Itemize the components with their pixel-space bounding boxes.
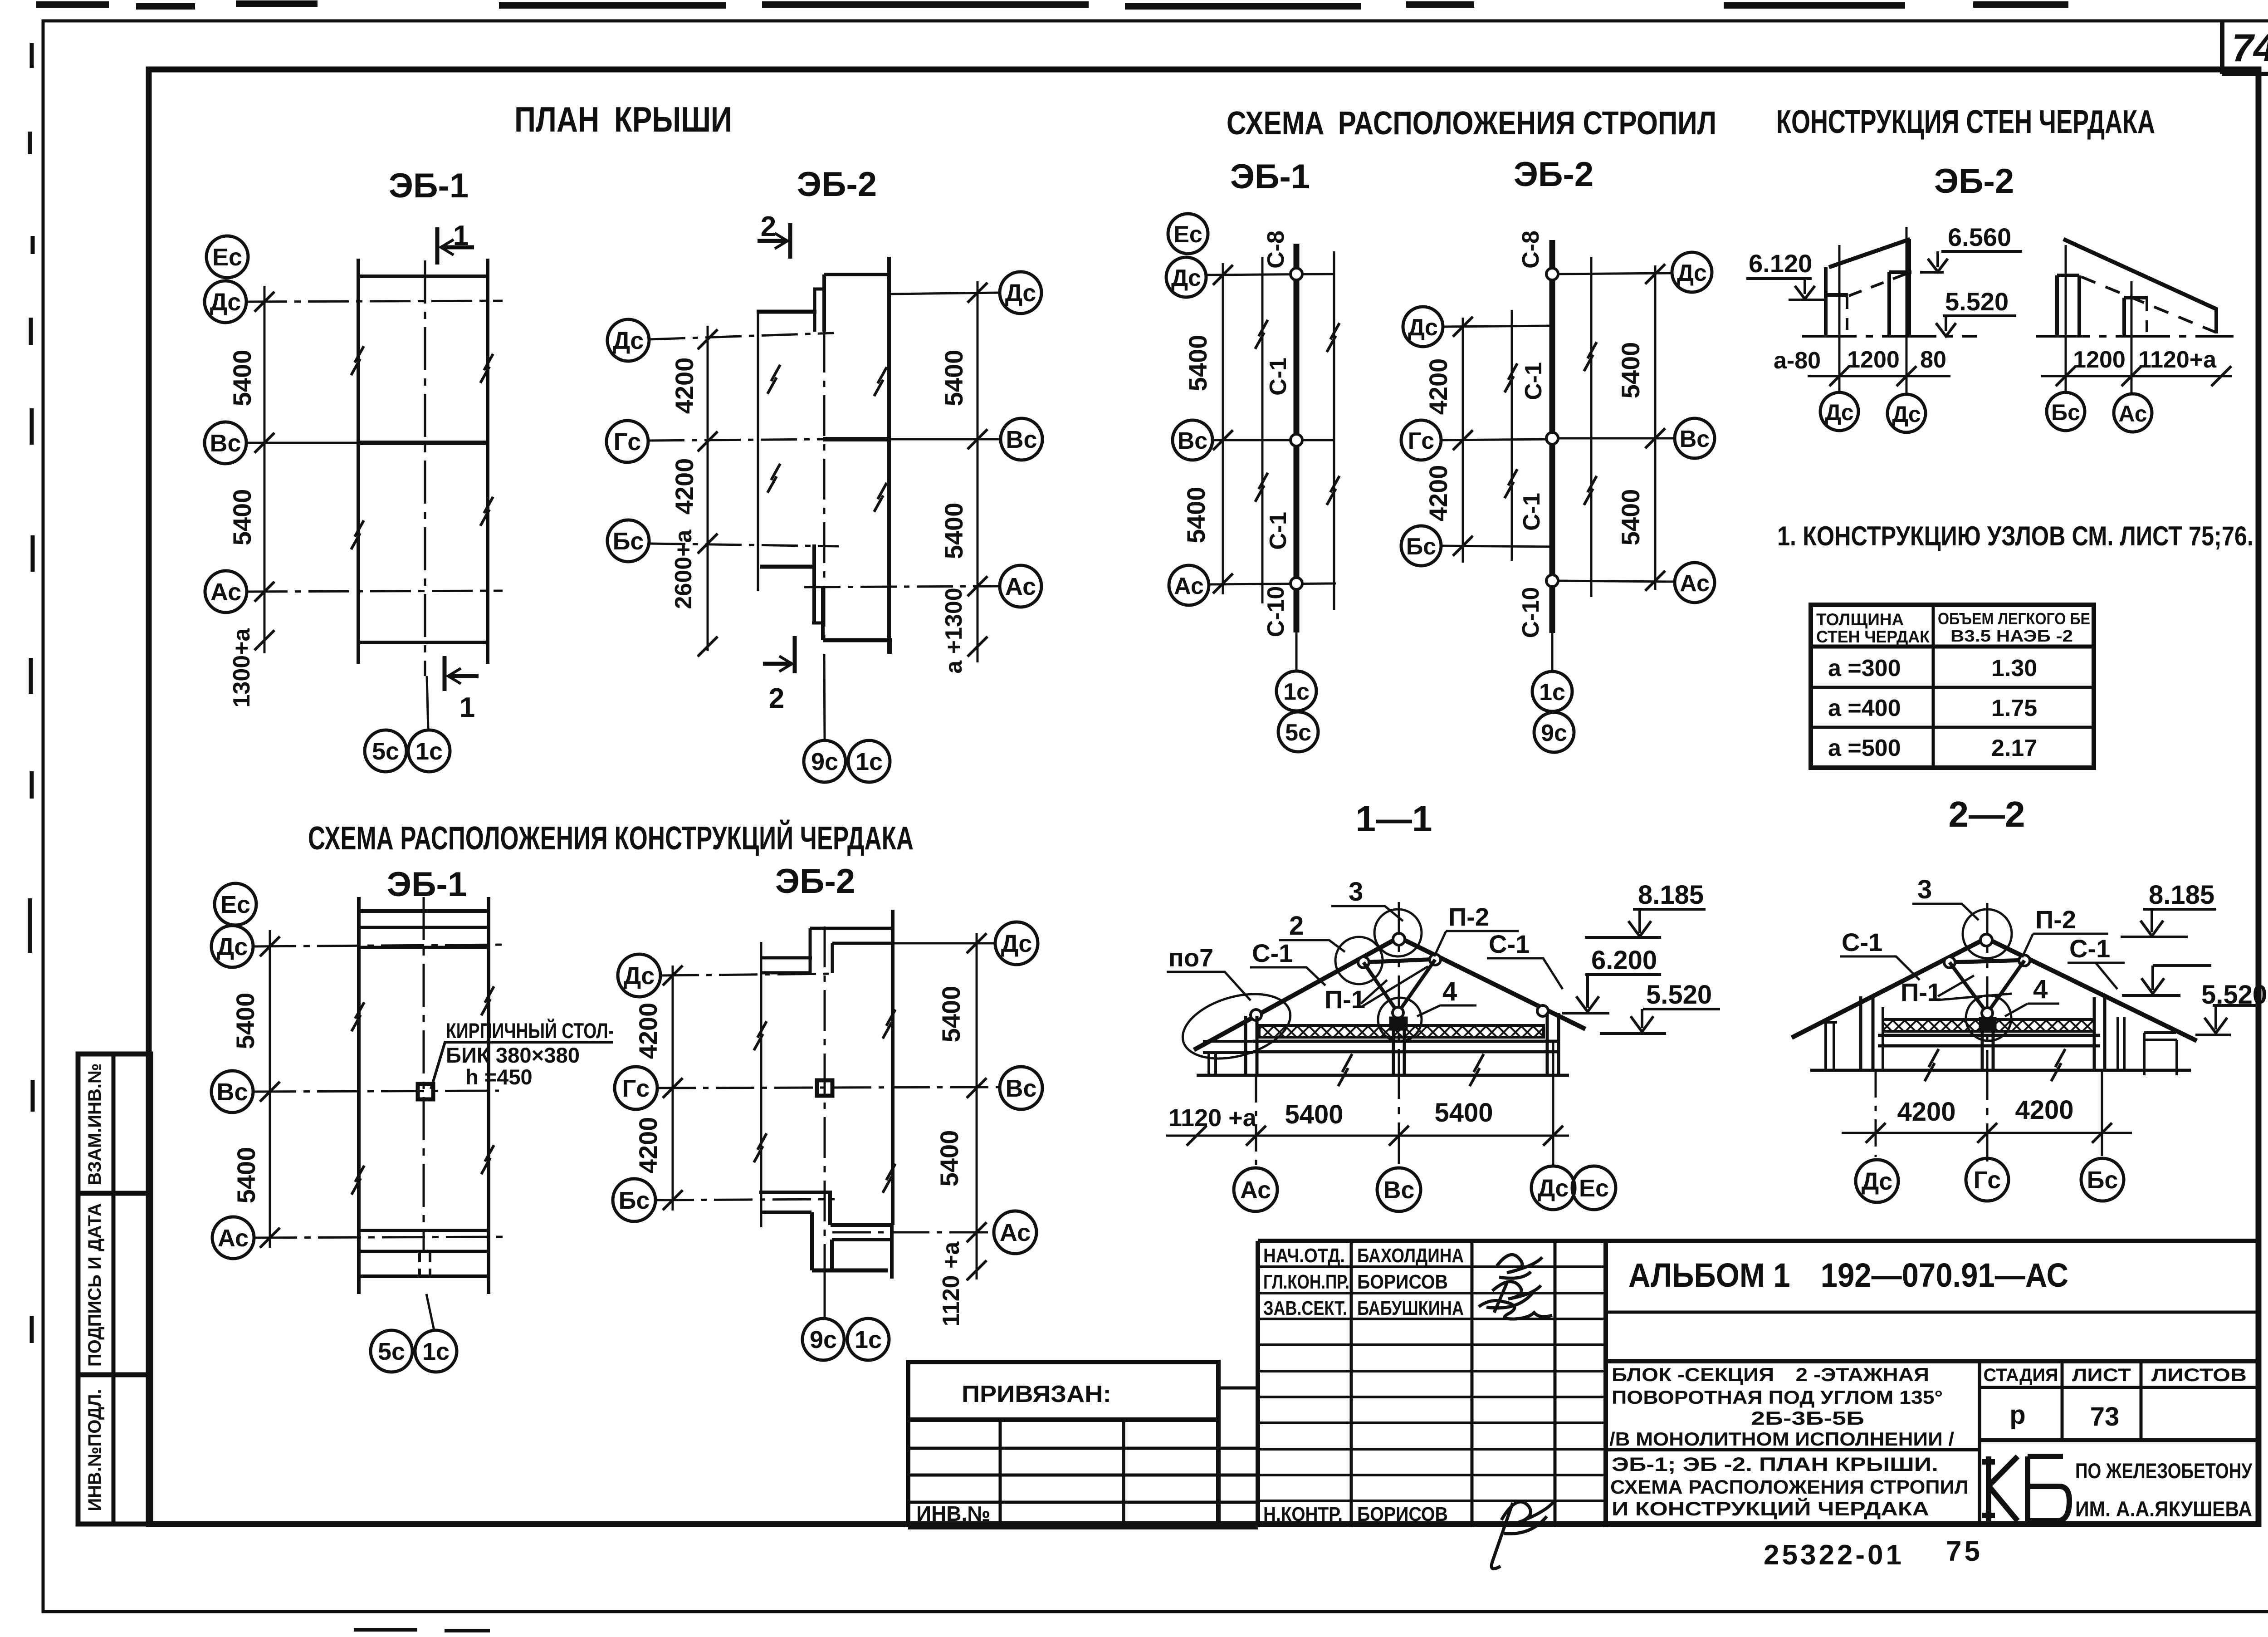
collar beam П-2: [1362, 959, 1437, 962]
svg-text:Вс: Вс: [1006, 426, 1037, 453]
section mark 1 top: [437, 227, 474, 265]
dim line: [1166, 1135, 1569, 1137]
svg-text:h =450: h =450: [465, 1065, 533, 1089]
axis circle 9с: [804, 740, 846, 782]
svg-text:ИНВ.№: ИНВ.№: [916, 1502, 991, 1525]
wall edge left upper: [822, 274, 826, 332]
axis circle 9с: [1534, 712, 1574, 752]
dim tick Дс: [968, 283, 987, 303]
svg-text:КИРПИЧНЫЙ СТОЛ-: КИРПИЧНЫЙ СТОЛ-: [446, 1019, 614, 1043]
dim tick Ас: [260, 1228, 280, 1248]
rafter С-1 left: [1792, 938, 1986, 1038]
break mark on base: [2051, 1049, 2065, 1081]
svg-text:Вс: Вс: [1005, 1075, 1036, 1102]
svg-text:Вс: Вс: [1680, 426, 1710, 452]
ridge node: [1393, 933, 1405, 945]
блок-секция cell top: [1606, 1359, 2258, 1363]
svg-text:Бс: Бс: [1406, 534, 1436, 560]
dim tick Дс: [254, 292, 274, 312]
right wall column: [1547, 1013, 1559, 1075]
svg-text:1120 +а: 1120 +а: [938, 1241, 964, 1327]
left overhang wall: [1209, 1053, 1216, 1075]
break mark: [883, 1164, 895, 1193]
axis Дс extension: [1552, 1042, 1554, 1165]
svg-text:5400: 5400: [1616, 489, 1645, 546]
break mark: [1327, 323, 1339, 352]
strut П-1 right: [1987, 961, 2024, 1013]
svg-text:1120+а: 1120+а: [2138, 347, 2217, 373]
break mark: [481, 986, 494, 1015]
svg-text:6.120: 6.120: [1749, 249, 1812, 278]
axis circle Дс: [1166, 257, 1206, 297]
signature scribble 3: [1479, 1301, 1552, 1319]
svg-text:1с: 1с: [1539, 679, 1565, 706]
svg-text:4200: 4200: [1424, 465, 1452, 522]
svg-text:8.185: 8.185: [2149, 880, 2214, 910]
axis line Дс: [253, 945, 503, 946]
svg-text:Гс: Гс: [1974, 1166, 2001, 1194]
slant roof top: [2063, 239, 2217, 309]
right dim line: [977, 281, 979, 662]
axis line Гс-Вс: [657, 1087, 1000, 1088]
svg-text:ЭБ-1; ЭБ -2. ПЛАН КРЫШИ.: ЭБ-1; ЭБ -2. ПЛАН КРЫШИ.: [1612, 1454, 1938, 1475]
break mark on base: [1338, 1054, 1352, 1086]
wall edge left: [357, 897, 361, 1294]
king post 4: [1391, 1018, 1406, 1029]
strut П-1 left: [1364, 962, 1398, 1013]
svg-text:БИК 380×380: БИК 380×380: [446, 1043, 580, 1067]
axis circle 5с: [365, 730, 406, 772]
svg-text:1: 1: [453, 220, 469, 251]
collar node left: [1358, 957, 1369, 968]
left overhang lines: [1203, 1041, 1253, 1053]
svg-text:Ес: Ес: [1173, 221, 1202, 248]
node Вс: [1546, 432, 1558, 444]
svg-text:9с: 9с: [811, 748, 838, 775]
left dim line: [672, 966, 674, 1211]
svg-text:4200: 4200: [634, 1003, 662, 1059]
dim tick Гс: [698, 431, 718, 451]
svg-text:НАЧ.ОТД.: НАЧ.ОТД.: [1263, 1245, 1345, 1267]
axis line Вс thick ridge: [246, 442, 357, 444]
break mark on base: [1925, 1049, 1939, 1081]
collar node right: [2019, 955, 2030, 966]
axis Дс extension: [1875, 1070, 1877, 1157]
svg-text:Ес: Ес: [220, 891, 250, 918]
svg-text:С-8: С-8: [1263, 230, 1289, 269]
dashed slant soffit: [1849, 273, 1908, 296]
axis line Дс right: [891, 293, 1000, 294]
svg-text:Дс: Дс: [1005, 279, 1036, 307]
middle wall outline: [2124, 298, 2148, 336]
axis circle Ас: [2114, 394, 2152, 432]
wall edge right: [487, 897, 490, 1294]
right dim line: [1654, 265, 1657, 590]
sheet number box 74: [2222, 21, 2268, 74]
wall axis Ас: [2131, 281, 2133, 393]
svg-text:3: 3: [1349, 877, 1363, 907]
svg-text:Вс: Вс: [1178, 428, 1207, 454]
axis line Дс left: [649, 333, 834, 339]
ridge node: [1980, 934, 1992, 946]
wall edge right: [887, 257, 891, 654]
svg-text:Бс: Бс: [613, 528, 644, 555]
eave node left: [1251, 1010, 1261, 1020]
dim tick: [2211, 366, 2231, 386]
break mark: [1505, 469, 1517, 498]
top step risers: [810, 928, 832, 973]
svg-text:Дс: Дс: [217, 933, 248, 961]
svg-text:5400: 5400: [937, 986, 965, 1043]
wing top upper: [757, 310, 816, 314]
dim tick Гс: [1977, 1123, 1997, 1143]
svg-text:Дс: Дс: [1408, 314, 1438, 341]
collar node left: [1944, 957, 1955, 968]
svg-text:С-1: С-1: [1265, 512, 1291, 550]
axis line Дс: [246, 301, 503, 302]
eave line top: [358, 274, 488, 278]
center axis 9с: [824, 926, 826, 1283]
wall segment above bottom cap: [821, 588, 825, 640]
axis circle 9с: [802, 1318, 844, 1360]
notch lower: [812, 622, 824, 625]
svg-text:3: 3: [1917, 875, 1932, 904]
svg-text:5.520: 5.520: [1945, 287, 2009, 316]
title block top edge: [1258, 1239, 2258, 1243]
svg-text:4200: 4200: [670, 358, 699, 414]
row line: [1811, 686, 2094, 689]
break mark: [1584, 342, 1597, 371]
svg-text:4200: 4200: [634, 1117, 662, 1174]
svg-text:ПОВОРОТНАЯ ПОД УГЛОМ 135°: ПОВОРОТНАЯ ПОД УГЛОМ 135°: [1612, 1387, 1943, 1408]
axis line Гс-Вс: [648, 439, 823, 441]
svg-text:Дс: Дс: [210, 289, 241, 316]
axis circle Вс: [211, 1071, 253, 1113]
brick pillar square: [418, 1084, 433, 1099]
break mark: [874, 367, 887, 396]
svg-text:СТАДИЯ: СТАДИЯ: [1984, 1365, 2058, 1385]
axis line Ас: [1209, 583, 1336, 584]
right wall edge: [891, 910, 894, 1225]
strut П-1 right: [1398, 960, 1435, 1013]
svg-text:Ас: Ас: [218, 1225, 249, 1252]
svg-text:5400: 5400: [1285, 1100, 1343, 1129]
dim tick bottom: [698, 637, 718, 657]
eave node right: [1537, 1005, 1548, 1016]
svg-text:5400: 5400: [1183, 335, 1212, 392]
break mark: [874, 483, 887, 512]
break mark: [1584, 476, 1597, 505]
break mark: [480, 497, 493, 526]
middle wall dashed edge: [2146, 299, 2148, 336]
svg-text:1с: 1с: [415, 738, 443, 765]
detail circle 3 (ridge): [1963, 909, 2012, 958]
break mark: [1505, 363, 1517, 392]
axis tail: [426, 1294, 434, 1330]
svg-text:4200: 4200: [1424, 358, 1452, 415]
axis line Ас: [254, 1237, 503, 1238]
break mark: [1255, 320, 1268, 349]
svg-text:П-2: П-2: [1448, 902, 1489, 931]
svg-text:Дс: Дс: [1001, 930, 1032, 957]
dim tick Дс: [1645, 264, 1665, 284]
dim tick Вс: [260, 1082, 280, 1102]
axis circle 5с: [1278, 712, 1318, 752]
dim tick Гс: [663, 1078, 683, 1098]
svg-text:5400: 5400: [1434, 1098, 1493, 1127]
axis circle Ес: [1168, 214, 1208, 254]
rafter edge line left: [1261, 257, 1264, 603]
pillar label leader: [431, 1042, 613, 1089]
svg-text:П-2: П-2: [2035, 905, 2076, 934]
svg-text:2: 2: [769, 683, 784, 714]
svg-text:ЭБ-2: ЭБ-2: [775, 862, 855, 901]
svg-text:Ас: Ас: [1174, 573, 1204, 599]
svg-text:5400: 5400: [935, 1130, 963, 1187]
svg-text:СТЕН ЧЕРДАК: СТЕН ЧЕРДАК: [1816, 627, 1930, 646]
axis circle Дс: [1856, 1160, 1898, 1202]
svg-text:Ас: Ас: [1000, 1219, 1031, 1246]
left wall column: [1246, 1016, 1257, 1075]
svg-text:9с: 9с: [810, 1326, 837, 1353]
dim tick Бс: [2092, 1123, 2112, 1143]
центральная axis 9с vertical: [823, 332, 826, 640]
detail circle 4 (king): [1378, 998, 1422, 1041]
wing left vertical: [757, 312, 759, 591]
wall axis Дс (right): [1906, 227, 1908, 394]
svg-text:2.17: 2.17: [1991, 735, 2037, 761]
axis tail to 9с: [824, 654, 825, 740]
svg-text:1120 +а: 1120 +а: [1168, 1104, 1257, 1132]
axis circle Ас right: [1675, 563, 1715, 603]
svg-text:ЭБ-1: ЭБ-1: [1230, 157, 1310, 196]
svg-text:а =300: а =300: [1828, 655, 1901, 681]
svg-text:Дс: Дс: [1677, 260, 1707, 286]
floor slab hatched: [1883, 1019, 2094, 1031]
node Дс: [1290, 268, 1302, 280]
axis line Бс left: [649, 544, 839, 546]
svg-text:а =400: а =400: [1828, 695, 1901, 721]
break mark: [767, 464, 780, 493]
svg-text:Бс: Бс: [2051, 400, 2080, 425]
dim tick Дс: [260, 936, 280, 956]
bottom step inner lines: [831, 1225, 894, 1240]
left edge lower: [906, 1420, 910, 1527]
svg-text:75: 75: [1946, 1536, 1983, 1567]
center axis 1с: [423, 897, 425, 1252]
left wall dashed edge: [1846, 297, 1848, 336]
rafter edge line right: [1590, 257, 1593, 597]
axis tail: [824, 1283, 826, 1318]
svg-text:Бс: Бс: [619, 1187, 650, 1214]
girder thick line: [1549, 240, 1555, 633]
dim tick Вс: [968, 429, 987, 449]
rafter С-1 left: [1194, 937, 1399, 1050]
svg-text:9с: 9с: [1541, 720, 1567, 746]
rafter С-1 right: [1986, 938, 2197, 1041]
slab band top lines: [359, 926, 489, 929]
axis circle Ас right: [994, 1211, 1036, 1254]
signature scribble 1: [1497, 1255, 1542, 1278]
break mark: [352, 1166, 364, 1195]
bottom step risers: [812, 1192, 830, 1270]
axis circle Гс left: [1401, 420, 1441, 460]
svg-text:Дс: Дс: [613, 327, 644, 354]
svg-text:ЭБ-2: ЭБ-2: [797, 165, 877, 204]
signature scribble 4 (н.контр): [1491, 1502, 1554, 1569]
svg-text:а-80: а-80: [1774, 348, 1821, 374]
break mark on base: [1470, 1054, 1484, 1086]
svg-text:80: 80: [1920, 347, 1946, 373]
table frame: [1811, 605, 2094, 768]
tail to 1с: [1295, 632, 1298, 671]
svg-text:73: 73: [2090, 1402, 2120, 1431]
axis circle Дс right: [1672, 252, 1712, 292]
axis circle Вс: [1377, 1168, 1421, 1211]
axis circle Бс left: [1401, 526, 1441, 566]
king node: [1982, 1008, 1993, 1019]
wall edge right: [486, 259, 489, 664]
axis circle Гс left: [615, 1067, 657, 1109]
wall axis Бс: [2065, 245, 2067, 392]
axis circle Дс: [205, 281, 246, 323]
grid rows: [908, 1448, 1218, 1502]
collar beam П-2: [1948, 960, 2026, 962]
axis circle 1с: [847, 1318, 889, 1360]
right edge extension: [890, 640, 892, 654]
axis circle Вс right: [1001, 418, 1042, 460]
svg-text:БОРИСОВ: БОРИСОВ: [1357, 1271, 1448, 1293]
svg-text:Ас: Ас: [2118, 401, 2147, 426]
king node: [1393, 1007, 1403, 1018]
dim tick Бс: [663, 1190, 683, 1210]
dim tick Вс: [1389, 1126, 1409, 1146]
right eave box: [2144, 1033, 2177, 1075]
axis line Бс left: [1441, 546, 1554, 547]
svg-text:5с: 5с: [1285, 720, 1311, 746]
svg-text:ЭБ-1: ЭБ-1: [389, 167, 469, 205]
dim tick Дс: [1453, 317, 1473, 337]
svg-text:Вс: Вс: [210, 430, 241, 457]
axis Бс extension: [2101, 1070, 2103, 1156]
axis circle Вс: [205, 422, 246, 464]
svg-text:Дс: Дс: [1892, 402, 1921, 427]
notch upper: [815, 289, 824, 332]
svg-text:5.520: 5.520: [1646, 980, 1712, 1010]
svg-text:а =500: а =500: [1828, 735, 1901, 761]
detail ellipse по7 (left eave): [1175, 983, 1298, 1070]
svg-text:С-1: С-1: [1520, 362, 1547, 400]
svg-text:5с: 5с: [372, 738, 399, 765]
svg-text:5400: 5400: [228, 489, 256, 546]
axis circle Вс: [1173, 420, 1212, 460]
svg-text:1200: 1200: [2073, 347, 2126, 373]
svg-text:6.560: 6.560: [1948, 223, 2011, 251]
break mark: [480, 354, 493, 383]
svg-text:2: 2: [1289, 911, 1304, 941]
axis circle 1с: [408, 730, 450, 772]
svg-text:С-10: С-10: [1263, 586, 1289, 637]
eave line bottom: [358, 641, 488, 644]
right dim line: [976, 933, 978, 1279]
dim tick Ас: [968, 576, 987, 596]
svg-text:4200: 4200: [670, 458, 699, 515]
svg-text:1. КОНСТРУКЦИЮ УЗЛОВ СМ. ЛИСТ: 1. КОНСТРУКЦИЮ УЗЛОВ СМ. ЛИСТ 75;76.: [1777, 521, 2253, 551]
collar node right: [1430, 954, 1441, 965]
svg-text:С-1: С-1: [1519, 493, 1545, 531]
svg-text:Н.КОНТР.: Н.КОНТР.: [1263, 1503, 1343, 1525]
elevation mid arrow: [2153, 964, 2211, 967]
axis circle Ес: [206, 236, 248, 278]
axis circle Ес: [215, 883, 256, 925]
axis circle Дс right: [1000, 272, 1041, 314]
svg-text:АЛЬБОМ 1 192—070.91—АС: АЛЬБОМ 1 192—070.91—АС: [1628, 1256, 2068, 1294]
break mark: [351, 520, 364, 549]
svg-text:С-1: С-1: [1489, 930, 1530, 958]
axis circle Бс left: [613, 1179, 655, 1221]
left wall outline: [1826, 267, 1848, 336]
detail circle 3 (ridge): [1374, 909, 1422, 956]
svg-text:ЭБ-1: ЭБ-1: [387, 865, 467, 904]
right end vertical: [2214, 308, 2218, 333]
svg-text:БАБУШКИНА: БАБУШКИНА: [1357, 1297, 1464, 1319]
left dim line: [707, 326, 709, 651]
svg-text:БОРИСОВ: БОРИСОВ: [1357, 1503, 1448, 1525]
dim tick Бс: [1453, 536, 1473, 556]
svg-text:С-10: С-10: [1518, 587, 1544, 638]
svg-text:5400: 5400: [939, 350, 968, 407]
svg-text:С-1: С-1: [2069, 934, 2110, 963]
base axis line: [1802, 335, 1977, 338]
rafter edge line right: [1333, 251, 1335, 610]
left thin wall line: [760, 942, 763, 1227]
signature scribble 2: [1486, 1282, 1541, 1313]
svg-text:4: 4: [1442, 977, 1457, 1006]
axis line Ас right: [804, 586, 1000, 587]
svg-text:1с: 1с: [855, 1326, 882, 1353]
eave bottom cap: [823, 638, 892, 642]
slab line: [1253, 1040, 1559, 1043]
axis circle Ес: [1572, 1166, 1616, 1210]
svg-text:П-1: П-1: [1901, 978, 1941, 1006]
dim tick Ас: [1213, 573, 1233, 593]
dim tick: [2056, 366, 2076, 386]
axis circle Ас: [1169, 565, 1209, 605]
svg-text:Дс: Дс: [1538, 1175, 1569, 1202]
axis circle 5с: [371, 1330, 412, 1372]
svg-text:ВЗАМ.ИНВ.№: ВЗАМ.ИНВ.№: [85, 1064, 105, 1186]
scan artifact dashes left edge: [30, 43, 33, 1343]
dim tick Ас: [1246, 1126, 1266, 1146]
axis line Бс left: [655, 1199, 835, 1200]
axis circle Гс: [1966, 1158, 2009, 1201]
svg-text:Дс: Дс: [1825, 400, 1853, 425]
axis line Вс: [1212, 439, 1334, 441]
break mark: [352, 1002, 364, 1031]
dashed pair at bottom: [420, 1253, 430, 1275]
dim line: [1808, 375, 1950, 377]
dim tick bottom: [967, 1260, 987, 1280]
break mark: [754, 1133, 767, 1162]
dim line: [2041, 375, 2232, 377]
break mark: [1327, 476, 1339, 505]
svg-text:5с: 5с: [378, 1338, 405, 1365]
node Вс: [1290, 434, 1302, 446]
svg-text:СХЕМА РАСПОЛОЖЕНИЯ СТРОПИЛ: СХЕМА РАСПОЛОЖЕНИЯ СТРОПИЛ: [1227, 105, 1716, 142]
svg-text:Гс: Гс: [622, 1075, 650, 1102]
svg-text:5400: 5400: [232, 1147, 260, 1204]
svg-text:25322-01: 25322-01: [1764, 1539, 1904, 1571]
